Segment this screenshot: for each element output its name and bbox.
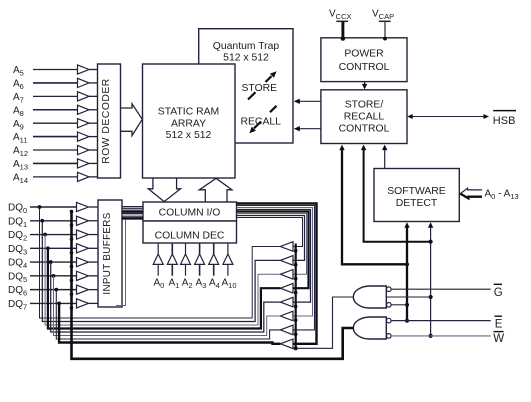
svg-text:RECALL: RECALL (241, 116, 282, 127)
wire: column i/o bit 2 to output buffer (237, 214, 307, 275)
wire: software detect to store/recall control (x385) (382, 145, 387, 169)
STORE arrow (to quantum trap) (248, 71, 277, 99)
svg-text:W: W (493, 333, 504, 345)
address input A8 with buffer (13, 105, 98, 118)
wire: output buffer 6 to DQ6 pin (56, 290, 280, 339)
wire: output buffer 4 to DQ4 pin (51, 262, 281, 332)
svg-text:512 x 512: 512 x 512 (166, 130, 212, 141)
DQ2 input with buffer (8, 230, 98, 243)
block: INPUT BUFFERS (98, 200, 122, 307)
gate U2 (write enable, inputs E W) (353, 317, 391, 339)
wire: store/recall control to quantum trap (upper) (294, 99, 321, 104)
svg-text:STORE: STORE (242, 83, 278, 94)
wire: gate U1 output to output-enable line (296, 297, 354, 348)
wire: column i/o bit 0 to output buffer (237, 218, 303, 247)
address input A6 with buffer (13, 78, 98, 91)
svg-text:E: E (495, 319, 503, 331)
block: STORE/RECALL CONTROL (321, 90, 407, 144)
address input A11 with buffer (13, 132, 98, 145)
DQ6 input with buffer (8, 285, 98, 298)
wire: column i/o bit 3 to output buffer (237, 212, 309, 289)
column address buffer A1 (167, 243, 177, 276)
svg-text:CONTROL: CONTROL (339, 62, 390, 73)
wire: power control to store/recall control (362, 82, 367, 90)
svg-text:512 x 512: 512 x 512 (223, 53, 269, 64)
wire: gate U1 lower input to E line (391, 304, 407, 306)
gate U1 (output enable, inputs G E W) (353, 286, 391, 308)
column address buffer A4 (209, 243, 219, 276)
output buffer DQ7 (280, 339, 293, 349)
output buffer DQ6 (280, 325, 293, 335)
wire: HSB to store/recall control (407, 114, 489, 119)
block: Quantum Trap 512 x 512 (199, 29, 293, 143)
svg-text:SOFTWARE: SOFTWARE (387, 186, 446, 197)
svg-text:ROW DECODER: ROW DECODER (101, 78, 112, 164)
bus arrow: sram down to column i/o (148, 179, 180, 202)
bus: input buffers to column i/o (8 lines) (122, 207, 143, 219)
svg-text:CONTROL: CONTROL (339, 124, 390, 135)
pin G (494, 284, 503, 299)
svg-text:HSB: HSB (493, 115, 516, 127)
pin E (495, 316, 503, 330)
svg-text:INPUT BUFFERS: INPUT BUFFERS (102, 212, 113, 294)
DQ7 input with buffer (8, 299, 98, 312)
wire: output buffer 7 to DQ7 pin (59, 303, 280, 343)
wire: gate U1 middle input to W line (386, 296, 430, 298)
block: STATIC RAM ARRAY (143, 64, 236, 178)
address input A14 with buffer (13, 172, 98, 185)
output buffer DQ3 (280, 283, 293, 293)
bus arrow: A0 - A13 into software detect (460, 188, 482, 198)
block: SOFTWARE DETECT (374, 169, 459, 222)
pin VCCX (329, 9, 352, 41)
svg-text:COLUMN I/O: COLUMN I/O (159, 208, 221, 219)
DQ3 input with buffer (8, 244, 98, 257)
address input A13 with buffer (13, 159, 98, 172)
wire: output buffer 5 to DQ5 pin (54, 276, 281, 336)
wire: output buffer 2 to DQ2 pin (45, 235, 280, 325)
pin HSB (493, 111, 516, 127)
wire: store/recall control to quantum trap (lower) (294, 126, 321, 131)
address input A9 with buffer (13, 119, 98, 132)
wire: output buffer 0 to DQ0 pin (40, 207, 281, 318)
output buffer DQ0 (280, 242, 293, 252)
column address buffer A0 (153, 243, 163, 276)
wire: column i/o bit 5 to output buffer (237, 208, 313, 317)
address input A5 with buffer (13, 65, 98, 78)
svg-text:POWER: POWER (344, 49, 384, 60)
DQ4 input with buffer (8, 257, 98, 270)
wire: W line up into software detect (x430) (428, 222, 433, 338)
wire: gate U2 output to input buffers (write enable) (72, 212, 354, 359)
svg-text:G: G (494, 287, 503, 299)
wire: E line up into software detect (x407) (404, 222, 409, 323)
block: ROW DECODER (98, 64, 121, 178)
wire: column i/o bit 7 to output buffer (237, 204, 317, 344)
svg-text:STORE/: STORE/ (345, 100, 384, 111)
bus arrow: column i/o up to sram (199, 178, 232, 201)
wire: W pin to gate U2 (391, 335, 491, 337)
block: COLUMN DEC (143, 221, 237, 243)
wire: E pin to gate U2 (391, 320, 491, 322)
wire: output buffer 3 to DQ3 pin (48, 248, 281, 328)
bus arrow: row decoder to sram (121, 104, 143, 136)
column address buffer A10 (223, 243, 233, 276)
wire: column i/o line to input buffers bottom (116, 220, 126, 306)
address input A7 with buffer (13, 92, 98, 105)
svg-text:DETECT: DETECT (396, 198, 438, 209)
junctions on write enable line (70, 210, 74, 310)
output buffer DQ4 (280, 297, 293, 307)
wire: G pin to gate U1 (391, 288, 491, 290)
block: COLUMN I/O (143, 202, 237, 221)
svg-text:COLUMN DEC: COLUMN DEC (155, 230, 225, 241)
wire: column i/o bit 6 to output buffer (237, 206, 315, 330)
block: POWER CONTROL (321, 38, 407, 82)
pin VCAP (372, 9, 394, 41)
DQ1 input with buffer (8, 216, 98, 229)
wire: output enable line along output buffers (294, 244, 298, 351)
svg-text:RECALL: RECALL (344, 112, 385, 123)
output buffer DQ1 (280, 256, 293, 266)
wire: output buffer 1 to DQ1 pin (42, 221, 280, 322)
DQ5 input with buffer (8, 271, 98, 284)
output buffer DQ2 (280, 270, 293, 280)
RECALL arrow (to sram) (249, 106, 276, 133)
column address buffer A2 (181, 243, 191, 276)
DQ0 input with buffer (8, 202, 98, 215)
wire: column i/o bit 1 to output buffer (237, 216, 305, 261)
column address buffer A3 (195, 243, 205, 276)
wire: gate output-enable node to store/recall control (x342) (339, 145, 407, 265)
svg-text:ARRAY: ARRAY (171, 119, 206, 130)
wire: column i/o bit 4 to output buffer (237, 210, 311, 303)
svg-text:Quantum Trap: Quantum Trap (213, 41, 280, 52)
wire: W node to store/recall control (x363) (361, 145, 431, 242)
pin W (493, 332, 504, 345)
output buffer DQ5 (280, 311, 293, 321)
address input A12 with buffer (13, 145, 98, 158)
svg-text:STATIC RAM: STATIC RAM (158, 107, 219, 118)
